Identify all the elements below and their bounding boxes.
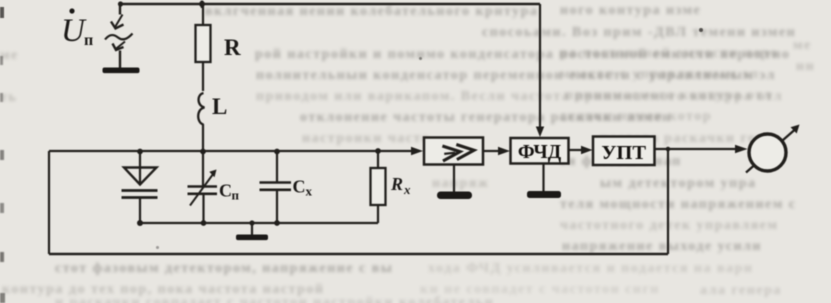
- amplifier gain symbol: [441, 143, 474, 161]
- inductor L: [198, 93, 204, 125]
- svg-text:УПТ: УПТ: [601, 142, 646, 164]
- amplifier U1 box: [424, 138, 483, 165]
- wire between R and L: [202, 62, 204, 91]
- node diode bottom: [137, 220, 143, 226]
- ground of FCHD: [527, 164, 561, 199]
- node Rx top: [375, 148, 381, 154]
- node top-left corner at source: [118, 1, 123, 6]
- svg-text:п: п: [84, 32, 93, 49]
- wire arrow into amplifier: [411, 147, 423, 156]
- ground of amplifier: [437, 165, 472, 200]
- voltage source Un: [105, 4, 133, 68]
- svg-text:R: R: [390, 174, 403, 194]
- node diode top: [137, 149, 143, 155]
- node Cp bottom: [201, 220, 207, 226]
- resistor R: [196, 25, 211, 62]
- node Cx top: [274, 149, 280, 155]
- wire arrow into FCHD top: [536, 127, 544, 138]
- node junction top of R: [199, 1, 205, 7]
- wire left edge of loop: [48, 151, 50, 254]
- wire FCHD to UPT with arrow: [569, 149, 582, 151]
- wire amplifier to FCHD with arrow: [483, 150, 498, 152]
- ground of source: [103, 68, 140, 74]
- svg-text:R: R: [224, 35, 241, 60]
- node feedback tap: [666, 147, 671, 152]
- svg-text:п: п: [232, 188, 240, 203]
- block FCHD: [511, 138, 569, 164]
- ground middle: [236, 220, 268, 240]
- wire bottom feedback bus: [49, 253, 668, 255]
- svg-text:C: C: [219, 181, 232, 201]
- wire L to main bus and Cp: [202, 124, 204, 186]
- meter indicator circle: [749, 134, 786, 171]
- node L bottom on main bus: [200, 149, 206, 155]
- wire top bus: [120, 3, 540, 6]
- node Cx bottom: [274, 220, 280, 226]
- varicap diode: [122, 151, 158, 223]
- wire arrow into meter: [735, 145, 748, 153]
- capacitor Cp variable: [188, 170, 218, 224]
- svg-text:C: C: [293, 177, 306, 197]
- wire R branch from top bus: [202, 4, 204, 25]
- svg-text:ФЧД: ФЧД: [518, 142, 562, 163]
- svg-text:L: L: [212, 94, 227, 119]
- wire UPT to meter: [655, 148, 736, 150]
- wire middle bus: [140, 222, 378, 224]
- svg-text:x: x: [306, 184, 313, 199]
- capacitor Cx: [260, 151, 292, 223]
- resistor Rx: [371, 151, 386, 223]
- wire drop to FCHD: [539, 4, 541, 128]
- meter needle arrow: [746, 125, 800, 173]
- wire feedback vertical from output: [667, 149, 669, 254]
- bleed-through background text: [205, 4, 538, 20]
- wire main bus: [49, 150, 412, 152]
- block UPT: [593, 137, 655, 166]
- svg-text:x: x: [403, 182, 411, 197]
